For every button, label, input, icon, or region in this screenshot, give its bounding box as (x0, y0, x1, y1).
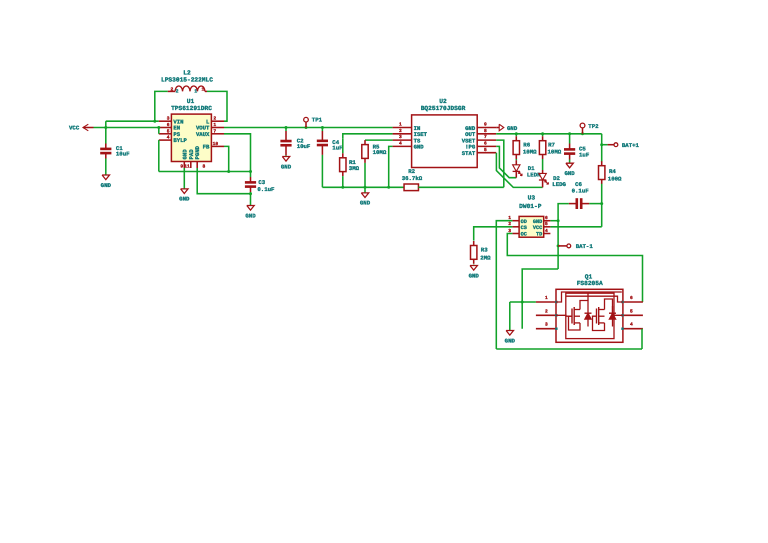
junction BAT- tap (557, 244, 560, 247)
svg-text:TPS61291DRC: TPS61291DRC (171, 105, 212, 112)
resistor R2 (403, 186, 405, 188)
svg-text:PGND: PGND (194, 145, 201, 159)
svg-text:9: 9 (180, 163, 183, 169)
junction VAUX/C3 (249, 170, 252, 173)
ground under C1 (102, 175, 109, 180)
svg-text:GND: GND (507, 125, 518, 132)
svg-text:1: 1 (399, 122, 402, 128)
wire Q1 pin4 down (641, 329, 643, 349)
wire gnd stem (509, 302, 511, 331)
svg-text:1: 1 (545, 295, 548, 301)
svg-text:4: 4 (630, 322, 633, 328)
U3 left pin stubs (512, 220, 519, 222)
resistor R1 (342, 138, 344, 153)
svg-text:2: 2 (545, 308, 548, 314)
svg-text:1uF: 1uF (332, 144, 343, 151)
junction U2gnd/rail (387, 186, 390, 189)
resistor R5 (364, 140, 366, 145)
Q1 left pin stubs (536, 301, 556, 303)
svg-text:GND: GND (469, 272, 480, 279)
wire B- vertical (557, 221, 559, 269)
U1 right pin stubs (211, 120, 224, 122)
svg-text:8: 8 (203, 163, 206, 169)
ground under C2 (285, 155, 287, 156)
svg-text:4: 4 (399, 141, 402, 147)
junction BAT+ tap (600, 143, 603, 146)
svg-text:C3: C3 (258, 179, 265, 186)
U3 right pin stubs (544, 220, 551, 222)
Q1 right pin stubs (623, 301, 643, 303)
ground under R3 (473, 265, 475, 266)
wire R7 to D2 (542, 159, 544, 170)
wire U2 GND pin down (389, 146, 393, 187)
svg-text:BAT+1: BAT+1 (622, 142, 640, 149)
svg-text:6: 6 (484, 141, 487, 147)
svg-text:2: 2 (176, 89, 179, 95)
svg-text:VCC: VCC (69, 125, 80, 132)
IC U3 DW01-P body (519, 216, 544, 237)
junction R1/gnd rail (341, 186, 344, 189)
svg-text:10MΩ: 10MΩ (373, 149, 387, 156)
svg-text:3: 3 (167, 116, 170, 122)
svg-text:LPS3015-222MLC: LPS3015-222MLC (161, 76, 213, 83)
wire rail corner down (601, 134, 603, 163)
svg-text:TP2: TP2 (588, 123, 599, 130)
LED D1 (515, 160, 517, 165)
svg-text:10uF: 10uF (116, 151, 130, 158)
wire ISET (343, 134, 393, 139)
resistor R7 (542, 134, 544, 136)
svg-text:BYLP: BYLP (173, 137, 187, 144)
capacitor C6 (589, 203, 602, 205)
ground under C5 (566, 163, 573, 168)
transistor Q1 FS8205A body (556, 289, 623, 342)
svg-text:11: 11 (184, 163, 190, 169)
svg-text:GND: GND (360, 200, 371, 207)
wire EN to PS (158, 128, 160, 134)
capacitor C4 (321, 128, 323, 132)
wire C4 down to gnd rail (321, 155, 323, 187)
capacitor C1 (105, 144, 107, 149)
svg-text:1: 1 (194, 89, 197, 95)
svg-text:0.1uF: 0.1uF (257, 186, 275, 193)
resistor R4 (601, 161, 603, 166)
wire BYLP down (158, 140, 160, 171)
svg-text:TD: TD (536, 232, 542, 238)
svg-text:1: 1 (202, 87, 205, 93)
svg-text:R4: R4 (609, 168, 616, 175)
svg-text:GND: GND (505, 337, 516, 344)
svg-text:BQ25170JDSGR: BQ25170JDSGR (421, 105, 466, 112)
svg-text:10uF: 10uF (297, 143, 311, 150)
Q1 pin connection marks (555, 301, 557, 303)
junction EN/PS (157, 126, 160, 129)
svg-text:0.1uF: 0.1uF (572, 187, 590, 194)
wire U3 OC to Q1 pin6 (507, 234, 642, 303)
svg-text:3: 3 (399, 134, 402, 140)
svg-text:4: 4 (167, 135, 170, 141)
ground near Q1 (506, 331, 513, 336)
mosfet A (571, 309, 573, 324)
svg-text:CS: CS (521, 225, 527, 231)
resistor R3 (473, 241, 475, 246)
svg-text:TP1: TP1 (312, 117, 323, 124)
junction U3 gnd/B- line (557, 219, 560, 222)
junction PGND/C3 (249, 192, 252, 195)
junction C4 (321, 126, 324, 129)
svg-text:7: 7 (213, 128, 216, 134)
ground on rail (364, 187, 366, 193)
junction VCC/C1 (104, 126, 107, 129)
svg-text:9: 9 (484, 122, 487, 128)
svg-text:7: 7 (484, 134, 487, 140)
wire U3 GND pin (550, 220, 558, 222)
svg-text:5: 5 (484, 147, 487, 153)
junction TP1 (305, 126, 308, 129)
svg-text:GND: GND (564, 170, 575, 177)
U2 right pin stubs (477, 127, 496, 129)
wire VOUT rail (224, 127, 393, 129)
wire L2 right leg to L pin (207, 91, 227, 121)
wire R4 down (601, 184, 603, 227)
wire STAT to D2 (496, 153, 542, 188)
wire TS (365, 139, 393, 141)
Q1 internal mosfet pair (566, 293, 614, 338)
U1 bottom pin stubs (183, 162, 185, 169)
svg-text:3: 3 (545, 322, 548, 328)
test point TP1 (304, 117, 309, 122)
junction C2 (285, 126, 288, 129)
junction R5/gnd rail (364, 186, 367, 189)
svg-text:100Ω: 100Ω (608, 175, 622, 182)
wire VSET down (496, 140, 504, 187)
svg-text:5: 5 (167, 128, 170, 134)
svg-text:2MΩ: 2MΩ (480, 255, 491, 262)
wire bottom return rail (496, 348, 642, 350)
U2 left pin stubs (393, 127, 412, 129)
svg-text:3MΩ: 3MΩ (349, 165, 360, 172)
svg-text:2: 2 (213, 116, 216, 122)
U1 left pin stubs (159, 120, 172, 122)
capacitor C5 (569, 134, 571, 144)
wire C1 to ground (105, 159, 107, 176)
capacitor C2 (285, 128, 287, 132)
svg-text:1: 1 (213, 122, 216, 128)
wire VIN row (105, 121, 107, 143)
svg-text:GND: GND (281, 163, 292, 170)
ground arrow at U2 pin9 (496, 127, 499, 129)
Q1 internal wires (556, 292, 622, 302)
svg-text:4: 4 (545, 228, 548, 234)
svg-text:FB: FB (203, 144, 210, 151)
svg-text:10MΩ: 10MΩ (523, 149, 537, 156)
svg-text:6: 6 (167, 122, 170, 128)
IC U2 BQ25170JDSGR body (412, 115, 478, 168)
svg-text:OC: OC (521, 232, 527, 238)
wire C3 to ground (250, 192, 252, 206)
svg-text:VCC: VCC (533, 225, 542, 231)
resistor R6 (515, 134, 517, 136)
svg-text:LEDR: LEDR (527, 172, 541, 179)
svg-text:GND: GND (101, 182, 112, 189)
svg-text:2: 2 (171, 87, 174, 93)
svg-text:8: 8 (484, 128, 487, 134)
svg-text:DW01-P: DW01-P (519, 203, 542, 210)
LED D2 (542, 170, 544, 173)
svg-text:U1: U1 (187, 98, 195, 105)
wire U1 PGND to C3 (197, 168, 250, 194)
ground under C3 (247, 206, 254, 211)
wire bypass rail (159, 171, 251, 173)
wire VCC to EN/PS node (94, 127, 159, 129)
inductor L2 (168, 90, 175, 92)
svg-text:BAT-1: BAT-1 (576, 243, 594, 250)
wire Q1 pin1 gnd row (510, 301, 536, 303)
svg-text:6: 6 (545, 215, 548, 221)
IC U1 TPS61291DRC body (171, 114, 211, 161)
svg-text:6: 6 (630, 295, 633, 301)
wire PG to D1 (496, 146, 516, 177)
svg-text:U3: U3 (528, 194, 536, 201)
svg-text:VAUX: VAUX (196, 131, 210, 138)
wire C6 left down (558, 204, 569, 221)
svg-text:GND: GND (414, 144, 425, 151)
wire L2 left leg (155, 91, 168, 121)
svg-text:LEDG: LEDG (552, 181, 566, 188)
svg-text:36.7kΩ: 36.7kΩ (402, 175, 423, 182)
wire R2 to VSET (418, 186, 503, 188)
wire FB down (224, 146, 229, 171)
junction Q1 pin1 node (521, 301, 524, 304)
mosfet B (596, 309, 598, 324)
svg-text:R3: R3 (481, 247, 488, 254)
capacitor C3 (250, 172, 252, 178)
supply pin BAT+1 (602, 144, 608, 146)
svg-text:GND: GND (533, 219, 542, 225)
wire U1 GND pin down (183, 168, 185, 189)
test point TP2 (580, 123, 585, 128)
supply pin BAT-1 (558, 245, 567, 247)
gnd rail (322, 186, 404, 188)
wire OUT rail (496, 133, 602, 135)
wire C5 to ground (569, 160, 571, 164)
junction C6 right (600, 202, 603, 205)
svg-text:10MΩ: 10MΩ (548, 149, 562, 156)
wire VAUX down (224, 134, 251, 172)
svg-text:1uF: 1uF (579, 152, 590, 159)
wire U3 OD down to Q1 rail (496, 221, 512, 349)
wire U3 CS to R3 (474, 227, 513, 241)
svg-text:10: 10 (213, 141, 219, 147)
wire U3 VCC to R4 node (550, 226, 601, 228)
svg-text:5: 5 (630, 308, 633, 314)
svg-text:GND: GND (245, 212, 256, 219)
svg-text:5: 5 (545, 221, 548, 227)
svg-text:STAT: STAT (462, 150, 476, 157)
ground under U1 (181, 189, 188, 194)
svg-text:FS8205A: FS8205A (577, 280, 603, 287)
svg-text:2: 2 (399, 128, 402, 134)
junction FB/rail (227, 170, 230, 173)
svg-text:OD: OD (521, 219, 527, 225)
svg-text:GND: GND (179, 196, 190, 203)
junction VIN/L2 (153, 120, 156, 123)
wire B- to Q1 left (522, 269, 558, 329)
